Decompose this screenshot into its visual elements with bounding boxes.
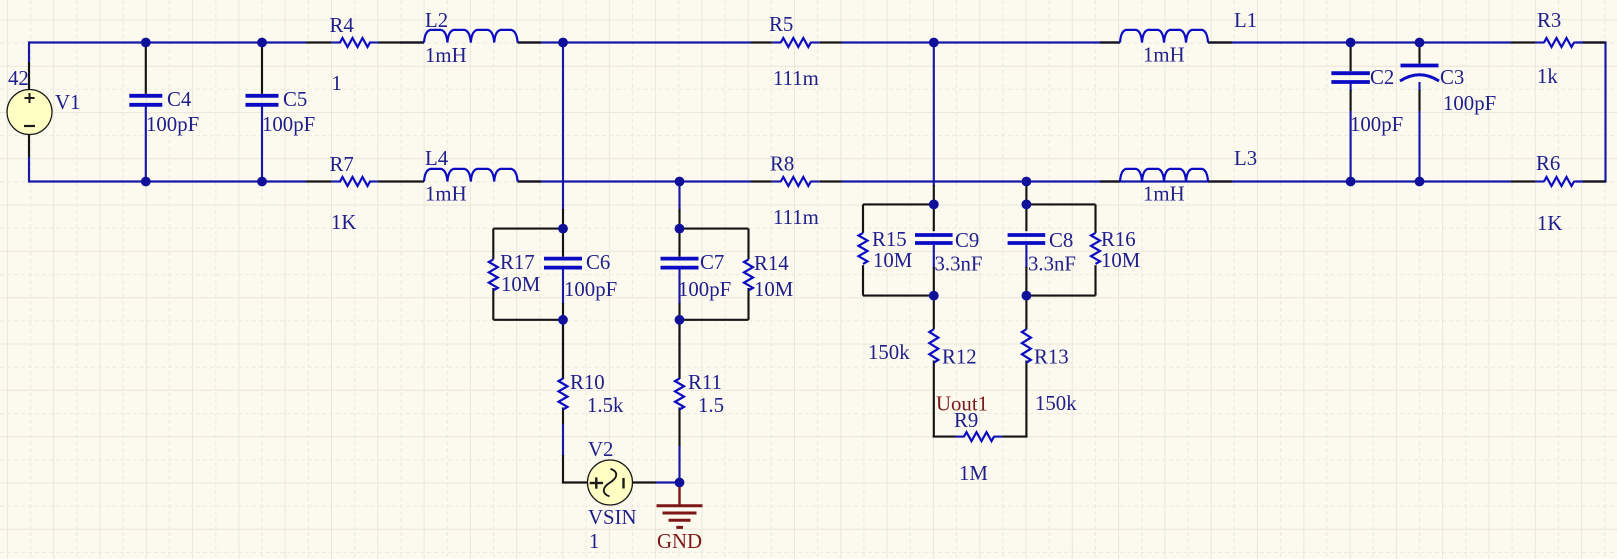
svg-text:1.5k: 1.5k <box>587 394 624 417</box>
svg-text:42: 42 <box>8 67 29 90</box>
svg-text:1: 1 <box>589 530 599 553</box>
svg-text:1mH: 1mH <box>425 183 467 206</box>
svg-text:1mH: 1mH <box>1143 183 1185 206</box>
svg-text:L3: L3 <box>1234 147 1257 170</box>
svg-text:L2: L2 <box>425 9 448 32</box>
svg-text:10M: 10M <box>501 273 540 296</box>
svg-text:1.5: 1.5 <box>698 394 724 417</box>
svg-text:1K: 1K <box>1537 212 1562 235</box>
svg-text:C8: C8 <box>1049 229 1073 252</box>
svg-text:L4: L4 <box>425 147 449 170</box>
svg-text:1k: 1k <box>1537 65 1558 88</box>
svg-text:100pF: 100pF <box>564 278 617 301</box>
svg-text:1: 1 <box>332 72 342 95</box>
svg-text:1mH: 1mH <box>1143 44 1185 67</box>
svg-text:100pF: 100pF <box>146 113 199 136</box>
svg-text:111m: 111m <box>773 206 819 229</box>
svg-text:R9: R9 <box>954 409 978 432</box>
svg-text:100pF: 100pF <box>262 113 315 136</box>
svg-text:VSIN: VSIN <box>588 506 637 529</box>
svg-text:L1: L1 <box>1234 9 1257 32</box>
svg-text:V1: V1 <box>55 91 80 114</box>
svg-text:100pF: 100pF <box>1443 92 1496 115</box>
svg-text:R8: R8 <box>770 153 794 176</box>
svg-text:R4: R4 <box>330 14 355 37</box>
svg-text:R11: R11 <box>688 371 722 394</box>
svg-text:R6: R6 <box>1536 152 1560 175</box>
svg-text:R7: R7 <box>330 153 354 176</box>
svg-text:1mH: 1mH <box>425 44 467 67</box>
svg-text:C5: C5 <box>283 88 307 111</box>
svg-text:111m: 111m <box>773 67 819 90</box>
svg-text:C7: C7 <box>700 251 724 274</box>
svg-text:150k: 150k <box>1035 392 1077 415</box>
svg-text:150k: 150k <box>868 341 910 364</box>
svg-text:R16: R16 <box>1101 228 1136 251</box>
svg-text:100pF: 100pF <box>678 278 731 301</box>
svg-text:1M: 1M <box>959 462 988 485</box>
svg-text:R12: R12 <box>942 346 977 369</box>
svg-text:10M: 10M <box>873 249 912 272</box>
svg-text:V2: V2 <box>588 438 613 461</box>
svg-text:100pF: 100pF <box>1350 113 1403 136</box>
svg-text:C6: C6 <box>586 251 610 274</box>
svg-text:10M: 10M <box>754 278 793 301</box>
svg-text:R10: R10 <box>570 371 605 394</box>
svg-text:C4: C4 <box>167 88 192 111</box>
svg-text:3.3nF: 3.3nF <box>1028 253 1076 276</box>
svg-text:R15: R15 <box>872 228 907 251</box>
svg-text:R14: R14 <box>754 252 789 275</box>
svg-text:10M: 10M <box>1101 249 1140 272</box>
svg-text:GND: GND <box>657 530 702 553</box>
svg-text:R3: R3 <box>1537 9 1561 32</box>
svg-text:R5: R5 <box>769 13 793 36</box>
svg-text:C2: C2 <box>1370 66 1394 89</box>
svg-text:C3: C3 <box>1440 66 1464 89</box>
svg-text:R13: R13 <box>1034 346 1069 369</box>
svg-text:R17: R17 <box>500 251 535 274</box>
svg-text:1K: 1K <box>331 211 356 234</box>
svg-text:C9: C9 <box>955 229 979 252</box>
svg-text:3.3nF: 3.3nF <box>935 253 983 276</box>
